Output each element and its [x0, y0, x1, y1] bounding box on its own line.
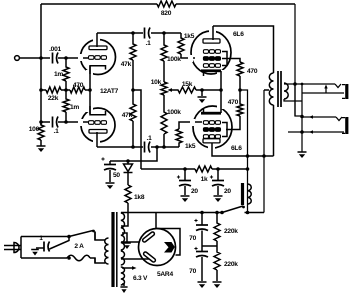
resistor 220k second — [214, 246, 220, 281]
gap masks V1a — [78, 54, 83, 61]
svg-text:22k: 22k — [48, 95, 59, 102]
triode V1a envelope — [81, 40, 116, 75]
capacitor 20 first — [184, 169, 186, 195]
wire B+ bus — [141, 168, 248, 170]
node j202-90 — [200, 88, 204, 92]
wire input to grid — [20, 57, 50, 59]
V1a cathode lead — [89, 66, 91, 90]
svg-text:.1: .1 — [147, 135, 153, 142]
node j302-132 — [300, 130, 304, 134]
capacitor .001 — [52, 53, 54, 64]
ground line cap — [31, 249, 39, 251]
ground input — [37, 145, 46, 147]
svg-text:70: 70 — [189, 235, 196, 242]
ground 20b — [214, 195, 223, 197]
resistor 470 cathode — [70, 87, 85, 93]
svg-text:20: 20 — [224, 188, 231, 195]
V3 plate lead — [212, 143, 274, 157]
svg-text:1m: 1m — [54, 71, 63, 78]
V1a cathode — [90, 66, 106, 74]
ground speaker — [298, 151, 307, 153]
PT CT lead — [122, 233, 127, 242]
node j164-33 — [162, 31, 166, 35]
node bias junction — [64, 88, 68, 92]
switch pole upper — [69, 231, 93, 237]
svg-text:1: 1 — [39, 235, 43, 242]
V3 beam tie — [222, 123, 227, 137]
ground 6.3 — [120, 286, 127, 288]
wire OT primary bottom — [273, 105, 275, 156]
pot wiper — [170, 89, 176, 91]
V2 grid3 — [203, 64, 208, 68]
V1b plate lead — [96, 132, 98, 147]
V2 plate lead — [212, 26, 214, 40]
svg-text:2 A: 2 A — [74, 243, 84, 250]
transformer OT primary — [269, 73, 273, 105]
jack J2 body — [345, 117, 348, 134]
svg-text:70: 70 — [189, 268, 196, 275]
node input junction — [39, 56, 43, 60]
PT HV secondary — [121, 213, 125, 250]
capacitor .1 input — [52, 117, 54, 128]
tube 6L6 V2 envelope — [191, 31, 231, 74]
V1b grid — [89, 121, 94, 125]
node j133-147 — [131, 145, 135, 149]
svg-text:12AT7: 12AT7 — [100, 88, 119, 95]
resistor 1k5 upper — [178, 33, 195, 58]
OT core — [278, 71, 281, 107]
node j295-84 — [293, 82, 297, 86]
wire B+ main — [121, 212, 264, 214]
svg-text:.1: .1 — [54, 128, 60, 135]
V1a plate lead — [96, 33, 98, 47]
resistor 820 — [157, 1, 176, 7]
jack J2 tip — [336, 117, 342, 121]
resistor 1k — [195, 166, 212, 172]
svg-text:100: 100 — [29, 126, 40, 133]
capacitor 70 first — [201, 213, 203, 247]
wire mid junction — [202, 245, 217, 247]
node j69-258 — [67, 256, 71, 260]
svg-text:10k: 10k — [151, 79, 162, 86]
wire Bplus riser x141 — [133, 90, 141, 169]
resistor 1m upper — [63, 58, 69, 90]
node j302-84 — [301, 83, 304, 86]
switch standby — [222, 206, 243, 213]
svg-text:6.3 V: 6.3 V — [133, 275, 148, 282]
capacitor line .1 — [43, 242, 45, 252]
node j133-90 — [131, 88, 135, 92]
wire plate2 rail — [97, 146, 179, 148]
resistor 1k8 — [125, 185, 131, 203]
node j302-116 — [300, 115, 304, 119]
svg-text:20: 20 — [191, 188, 198, 195]
gap masks V3 — [217, 104, 225, 109]
PT 6.3V winding — [121, 267, 125, 285]
5AR4 top lead — [155, 213, 157, 229]
tube 6L6 V3 envelope — [193, 106, 232, 148]
node j221-90 — [219, 88, 223, 92]
wire cap ground stub — [36, 247, 44, 249]
node j133-33 — [131, 31, 135, 35]
5AR4 slot lower — [143, 251, 156, 262]
capacitor 20 second — [217, 169, 219, 195]
node j185-169 — [183, 167, 187, 171]
svg-text:15k: 15k — [182, 81, 193, 88]
node j248-212 — [246, 211, 250, 215]
V3 grid2 screen — [203, 128, 208, 132]
wire gnd stub — [201, 90, 203, 96]
resistor 100k lower — [161, 95, 167, 147]
svg-text:47k: 47k — [121, 61, 132, 68]
V2 cathode lead — [220, 71, 222, 90]
node x156-264 — [262, 154, 266, 158]
svg-text:.1: .1 — [146, 40, 152, 47]
node j217-212 — [215, 211, 219, 215]
resistor 470 screen lower — [226, 90, 243, 130]
V1b cathode lead — [89, 90, 91, 114]
ground 70b — [198, 281, 207, 283]
wire sleeve2 rail — [288, 131, 344, 133]
V3 grid1 — [203, 121, 208, 125]
resistor 15k — [176, 87, 221, 93]
V1b cathode — [90, 106, 106, 115]
svg-text:1k5: 1k5 — [184, 33, 195, 40]
jack1 shorting contact — [325, 86, 327, 93]
svg-text:1k5: 1k5 — [185, 143, 196, 150]
PT primary bottom lead — [95, 258, 105, 263]
wire grid2 rail y122 — [41, 121, 88, 123]
svg-text:470: 470 — [228, 99, 239, 106]
V2 beam tie — [222, 52, 227, 66]
wire cap to grid — [58, 57, 88, 59]
V2 grid2 screen — [203, 57, 208, 61]
wire fuse to PT — [90, 258, 95, 263]
resistor 100k upper — [161, 33, 167, 82]
wire tip2 rail — [302, 116, 336, 118]
svg-text:100k: 100k — [167, 109, 181, 116]
plug P1 — [4, 246, 14, 250]
wire AC box — [21, 237, 69, 259]
resistor 100 — [38, 122, 44, 146]
jack J1 body — [345, 84, 348, 99]
resistor 47k lower — [130, 90, 136, 147]
resistor 470 screen upper — [237, 62, 243, 76]
capacitor 70 second — [201, 246, 203, 281]
node j164-147 — [162, 145, 166, 149]
V1a plate — [89, 46, 107, 50]
wire cathode rail y90 — [41, 89, 90, 91]
wire top feedback rail — [41, 3, 295, 5]
capacitor .1 coupling upper — [144, 28, 146, 39]
svg-text:820: 820 — [161, 10, 172, 17]
transformer PT core — [111, 212, 114, 287]
ground CT — [123, 242, 131, 244]
potentiometer 10k — [161, 82, 167, 95]
V1b plate — [89, 130, 107, 134]
node j218-169 — [216, 167, 220, 171]
svg-text:1m: 1m — [70, 104, 79, 111]
svg-text:1k8: 1k8 — [134, 194, 145, 201]
transformer OT secondary — [284, 83, 288, 99]
svg-text:6L6: 6L6 — [231, 145, 242, 152]
5AR4 left stubs — [121, 242, 149, 259]
node j240-90 — [238, 88, 242, 92]
triode V1b envelope — [81, 108, 115, 142]
node j157-147 — [155, 145, 159, 149]
svg-text:220k: 220k — [224, 261, 238, 268]
ground cathode 6L6 — [198, 96, 207, 98]
svg-text:1k: 1k — [201, 176, 208, 183]
gap masks V1b — [78, 119, 83, 126]
PT 6.3 top lead — [122, 267, 133, 269]
V3 cathode lead — [220, 90, 222, 113]
node j128-161 — [126, 159, 130, 163]
OT center tap — [264, 89, 269, 91]
V3 cathode — [201, 112, 221, 115]
wire plug joins — [14, 246, 21, 250]
ground 20a — [181, 195, 190, 197]
ground 220kb — [213, 281, 222, 283]
V2 screen lead — [222, 59, 240, 63]
wire switch to PT — [94, 232, 96, 241]
resistor 22k — [46, 87, 61, 93]
5AR4 hook — [157, 229, 180, 256]
svg-text:5AR4: 5AR4 — [157, 271, 173, 278]
node fb junction — [39, 88, 43, 92]
wire screen bus — [240, 90, 248, 213]
fuse 2A — [67, 255, 90, 261]
node j248-169 — [246, 167, 250, 171]
node j202-212 — [200, 211, 204, 215]
node cathode junction — [88, 88, 92, 92]
jack J1 tip — [335, 84, 341, 88]
tube 5AR4 envelope — [139, 229, 176, 266]
wire sec bottom — [284, 84, 344, 152]
wire plate1 to OT — [213, 26, 274, 73]
svg-text:50: 50 — [113, 172, 120, 179]
diode D1 — [127, 161, 129, 185]
wire plate1 rail — [97, 32, 181, 34]
node grid1 junction — [64, 56, 68, 60]
PT primary top lead — [95, 232, 105, 241]
resistor 1m lower — [63, 90, 69, 122]
svg-text:47k: 47k — [122, 112, 133, 119]
PT 5V winding — [121, 251, 125, 265]
choke winding — [248, 184, 252, 204]
svg-text:220k: 220k — [224, 228, 238, 235]
node j41-122 — [39, 120, 43, 124]
svg-text:470: 470 — [247, 68, 258, 75]
wire feedback right vertical — [294, 4, 296, 116]
wire bias riser — [110, 147, 157, 161]
capacitor .1 coupling lower — [144, 142, 146, 153]
resistor 47k upper — [130, 33, 136, 90]
5AR4 slot upper — [142, 231, 155, 242]
wire left vertical bus — [40, 4, 42, 125]
svg-text:6L6: 6L6 — [233, 31, 244, 38]
V2 grid1 — [203, 50, 208, 54]
wire fb to tip2 — [295, 84, 302, 116]
node x156-247 — [246, 154, 250, 158]
node j66-122 — [64, 120, 68, 124]
gap masks V2 — [209, 28, 216, 33]
input jack J1 — [15, 56, 20, 61]
PT 6.3 bottom lead — [122, 284, 124, 286]
wire B+ riser x264 — [263, 90, 265, 213]
5AR4 key — [164, 242, 175, 253]
V3 grid3 — [203, 135, 208, 139]
PT primary — [105, 238, 109, 264]
svg-text:.001: .001 — [49, 46, 61, 53]
node j69-237 — [67, 235, 71, 239]
wire sec top tip rail — [284, 83, 335, 85]
resistor 1k5 lower — [176, 122, 202, 147]
V2 cathode — [201, 69, 221, 72]
capacitor 50 — [109, 161, 111, 182]
ground 50 — [106, 182, 115, 184]
switch pole lower — [50, 237, 70, 250]
wire HV stub — [121, 212, 128, 226]
svg-text:100k: 100k — [167, 56, 181, 63]
resistor 220k first — [214, 213, 220, 247]
V2 plate — [203, 39, 220, 43]
V3 plate — [203, 139, 220, 143]
choke core — [241, 183, 244, 205]
V1a grid — [89, 56, 94, 60]
svg-text:470: 470 — [73, 82, 84, 89]
